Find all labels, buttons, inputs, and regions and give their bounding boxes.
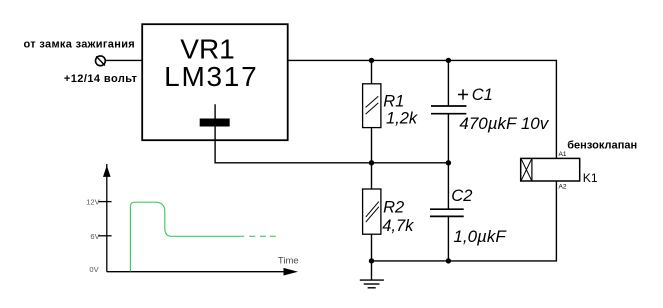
svg-text:LM317: LM317	[164, 61, 257, 92]
svg-text:Time: Time	[278, 256, 299, 267]
svg-text:1,0µkF: 1,0µkF	[453, 227, 507, 246]
svg-text:4,7k: 4,7k	[382, 217, 414, 235]
svg-text:A1: A1	[559, 151, 567, 158]
svg-text:470µkF 10v: 470µkF 10v	[459, 114, 549, 133]
svg-text:+12/14 вольт: +12/14 вольт	[64, 73, 138, 85]
svg-text:R1: R1	[383, 92, 404, 110]
svg-text:0V: 0V	[89, 265, 98, 274]
svg-text:C1: C1	[472, 86, 493, 104]
svg-text:1,2k: 1,2k	[386, 110, 418, 128]
svg-text:6V: 6V	[90, 232, 99, 241]
svg-text:12V: 12V	[86, 198, 99, 207]
svg-text:бензоклапан: бензоклапан	[567, 140, 637, 152]
svg-text:R2: R2	[383, 199, 404, 217]
svg-text:от замка зажигания: от замка зажигания	[24, 39, 135, 51]
svg-text:C2: C2	[451, 187, 472, 205]
svg-text:A2: A2	[559, 184, 567, 191]
svg-text:K1: K1	[583, 171, 598, 185]
